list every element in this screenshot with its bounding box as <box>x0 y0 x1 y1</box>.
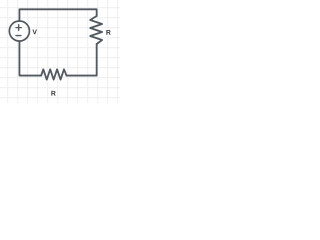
voltage source V: minus sign <box>16 35 21 37</box>
resistor R2 (bottom, horizontal zigzag) <box>41 69 66 79</box>
voltage source V: plus sign <box>16 25 21 31</box>
label R (right resistor) <box>106 30 110 35</box>
voltage source V: circle <box>9 21 29 41</box>
resistor R1 (right, vertical zigzag) <box>90 16 102 44</box>
label V (voltage source) <box>32 30 36 35</box>
wire: source top up, across top, down to R1 <box>19 9 96 21</box>
label R (bottom resistor) <box>51 91 55 96</box>
wire: R1 bottom down, across bottom to R2 right end <box>67 44 97 76</box>
wire: bottom left to corner, up to source bottom <box>19 41 41 75</box>
